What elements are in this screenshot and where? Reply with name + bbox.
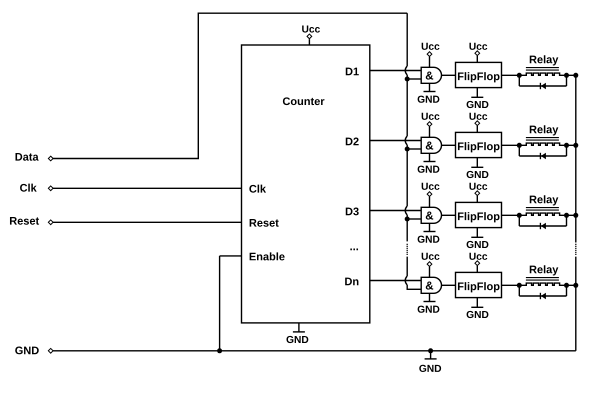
diode VD3 symbol <box>540 223 546 230</box>
flipflop FF2 GND pin <box>467 158 489 178</box>
wire FlipFlop FF4 to relay <box>502 284 520 286</box>
wire D3 to AND gate <box>370 210 421 212</box>
counter pin Reset label <box>250 219 279 227</box>
flipflop FF4 box <box>456 272 502 297</box>
diode VD2 branch <box>519 145 566 156</box>
counter U1 label <box>283 97 325 105</box>
flipflop FF3 box <box>456 202 502 227</box>
counter pin Enable label <box>250 252 285 260</box>
relay K4 label <box>530 265 559 275</box>
relay K4 coil <box>519 283 576 285</box>
wire Enable riser <box>220 256 242 351</box>
counter Ucc pin <box>302 25 320 45</box>
flipflop FF3 Ucc pin <box>469 183 487 203</box>
wire hop at D2 crossing <box>405 136 407 145</box>
junction relay K2 left node <box>517 143 522 148</box>
AND gate G1 Ucc pin <box>422 43 440 68</box>
AND gate G2 Ucc pin <box>422 113 440 138</box>
wire GND bottom rail <box>53 350 576 352</box>
ground symbol on bottom rail <box>419 348 441 372</box>
flipflop FF1 GND pin <box>467 88 489 108</box>
relay K3 label <box>530 195 559 205</box>
relay K3 coil <box>519 213 576 215</box>
wire data branch row 2 <box>407 148 421 150</box>
wire hop at Dn crossing <box>405 276 407 285</box>
counter GND pin <box>286 323 308 343</box>
junction relay K1 right node <box>564 73 569 78</box>
wire data bus to last AND input <box>407 288 422 290</box>
AND gate G4 Ucc pin <box>422 253 440 278</box>
wire FlipFlop FF2 to relay <box>502 144 520 146</box>
wire data branch row 3 <box>407 218 421 220</box>
junction data bus row 3 <box>405 217 410 222</box>
junction relay K1 left node <box>517 73 522 78</box>
counter pin D2 label <box>346 138 359 146</box>
wire data branch row 1 <box>407 78 421 80</box>
AND gate G4 <box>421 277 441 293</box>
wire hop at D1 crossing <box>405 66 407 75</box>
wire data bus vertical <box>406 13 408 289</box>
wire FlipFlop FF1 to relay <box>502 74 520 76</box>
junction return bus row 1 <box>573 73 578 78</box>
junction return bus row 2 <box>573 143 578 148</box>
flipflop FF3 label <box>458 212 500 222</box>
relay K1 coil <box>519 73 576 75</box>
junction data bus row 1 <box>405 77 410 82</box>
junction return bus row 4 <box>573 283 578 288</box>
junction relay K4 left node <box>517 283 522 288</box>
relay K4 core lines <box>526 278 559 281</box>
wire D2 to AND gate <box>370 140 421 142</box>
diode VD2 symbol <box>540 153 546 160</box>
junction relay K3 left node <box>517 213 522 218</box>
relay K2 core lines <box>526 138 559 141</box>
counter pin Clk label <box>249 185 266 193</box>
AND gate G3 Ucc pin <box>422 183 440 208</box>
AND gate G2 GND pin <box>418 153 440 172</box>
relay K2 label <box>530 125 559 135</box>
counter pin D3 label <box>346 208 359 216</box>
flipflop FF4 Ucc pin <box>469 253 487 273</box>
flipflop FF2 Ucc pin <box>469 113 487 133</box>
AND gate G3 GND pin <box>418 223 440 242</box>
port Reset <box>10 217 53 225</box>
AND gate G1 GND pin <box>418 83 440 102</box>
relay K2 coil <box>519 143 576 145</box>
relay K1 core lines <box>526 68 559 71</box>
wire Dn to AND gate <box>370 280 421 282</box>
port GND <box>15 347 53 355</box>
flipflop FF1 label <box>458 72 500 82</box>
wire AND G3 to FlipFlop <box>442 214 456 216</box>
wire AND G2 to FlipFlop <box>442 144 456 146</box>
counter pin D1 label <box>346 68 359 76</box>
diode VD3 branch <box>519 215 566 226</box>
flipflop FF1 box <box>456 62 502 87</box>
flipflop FF1 Ucc pin <box>469 43 487 63</box>
junction relay K3 right node <box>564 213 569 218</box>
wire FlipFlop FF3 to relay <box>502 214 520 216</box>
AND gate G1 <box>421 67 441 83</box>
junction relay K2 right node <box>564 143 569 148</box>
wire AND G4 to FlipFlop <box>442 284 456 286</box>
junction Enable riser to GND rail <box>217 348 222 353</box>
wire Data top rail <box>198 12 407 14</box>
port Clk <box>20 184 53 192</box>
diode VD4 branch <box>519 285 566 296</box>
counter U1 box <box>242 45 370 323</box>
junction data bus row 2 <box>405 147 410 152</box>
diode VD4 symbol <box>540 293 546 300</box>
counter pin Dn label <box>345 278 358 286</box>
port Data <box>15 153 53 161</box>
wire hop at D3 crossing <box>405 206 407 215</box>
wire D1 to AND gate <box>370 70 421 72</box>
flipflop FF3 GND pin <box>467 228 489 248</box>
AND gate G3 <box>421 207 441 223</box>
flipflop FF2 box <box>456 132 502 157</box>
relay K3 core lines <box>526 208 559 211</box>
diode VD1 symbol <box>540 83 546 90</box>
wire right return bus <box>575 75 577 351</box>
wire Data input <box>53 158 200 160</box>
flipflop FF4 label <box>458 282 500 292</box>
junction return bus row 3 <box>573 213 578 218</box>
junction relay K4 right node <box>564 283 569 288</box>
wire Data riser <box>197 13 199 159</box>
diode VD1 branch <box>519 75 566 86</box>
flipflop FF2 label <box>458 142 500 152</box>
relay K1 label <box>530 55 559 65</box>
wire Reset input <box>53 221 242 223</box>
counter dots label <box>350 249 358 251</box>
AND gate G2 <box>421 137 441 153</box>
flipflop FF4 GND pin <box>467 298 489 318</box>
wire Clk input <box>53 187 242 189</box>
wire AND G1 to FlipFlop <box>442 74 456 76</box>
AND gate G4 GND pin <box>418 293 440 312</box>
